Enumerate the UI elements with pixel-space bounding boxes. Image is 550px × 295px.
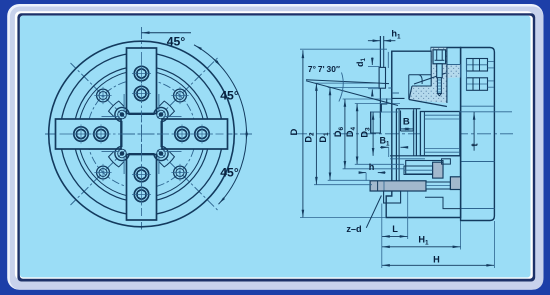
- hex socket: [435, 50, 445, 60]
- jaw block left: [371, 112, 381, 133]
- dimension D4 line: [356, 104, 358, 165]
- jaw screw 6: [132, 165, 151, 184]
- mounting bolt hole 1: [467, 59, 495, 72]
- angle upper line: [306, 80, 389, 84]
- D6 extension lines: [343, 99, 404, 169]
- angle arc: [339, 73, 343, 102]
- dimension h lines: [359, 171, 386, 181]
- stipple patch outline: [447, 65, 461, 78]
- pinion channels: [108, 101, 174, 167]
- bolt hole block: [384, 191, 401, 203]
- dimension t line: [473, 112, 476, 151]
- jaw screw 5: [132, 84, 151, 103]
- mounting bolt bar: [370, 181, 426, 191]
- mounting bolt hole 2: [467, 78, 495, 91]
- mounting bolt shaft: [426, 182, 450, 189]
- svg-text:H: H: [433, 255, 440, 265]
- z-d leader line: [366, 196, 381, 228]
- dimension h1 lines: [368, 39, 396, 42]
- dimension H1 line: [382, 221, 461, 250]
- jaw screw 7: [92, 125, 111, 144]
- dimension D2 line: [315, 83, 317, 185]
- jaw right: [162, 119, 228, 149]
- diagonal centerline top-right: [158, 58, 218, 118]
- chuck body circle: [60, 53, 223, 216]
- svg-text:z–d: z–d: [346, 224, 361, 234]
- jaw slot clearance lines: [102, 94, 182, 174]
- body inner step line: [387, 52, 389, 68]
- diagonal centerline bottom-right: [158, 150, 218, 210]
- jaw left: [56, 119, 122, 149]
- back plate body: [461, 48, 495, 221]
- svg-text:t: t: [470, 143, 480, 146]
- pinion dot 3: [118, 149, 127, 158]
- lower mechanism block: [404, 159, 450, 178]
- boss outline: [412, 48, 447, 104]
- diagonal centerline top-left: [71, 63, 126, 118]
- svg-text:h: h: [369, 162, 375, 172]
- centerline through jaws: [60, 52, 224, 216]
- jaw screw 4: [193, 125, 212, 144]
- svg-text:45°: 45°: [167, 35, 186, 49]
- dimension D1 line: [329, 88, 331, 181]
- dimension D line: [302, 50, 304, 217]
- jaw slot walls: [390, 109, 461, 181]
- cover screw 2: [171, 87, 188, 104]
- centre opening with corner scoops: [115, 107, 168, 160]
- cover screw 4: [171, 164, 188, 181]
- back plate inner lines: [461, 106, 495, 208]
- cover screw 1: [94, 87, 111, 104]
- svg-text:B: B: [403, 116, 410, 127]
- wedge stipple area: [410, 48, 461, 103]
- front view horizontal centerline: [45, 133, 254, 135]
- top dimension line 45deg: [142, 32, 192, 34]
- jaw bottom: [127, 155, 157, 221]
- dimension B1 arrows: [380, 146, 408, 157]
- dimension d1 arrows: [368, 58, 380, 97]
- D extension bottom: [300, 217, 386, 219]
- svg-text:45°: 45°: [220, 88, 239, 102]
- jaw screw 3: [72, 125, 91, 144]
- recess circle inner: [78, 71, 205, 198]
- front view vertical centerline: [141, 27, 143, 230]
- body chamfer lines: [409, 75, 431, 100]
- bolt circle centerline: [87, 80, 196, 189]
- screw tip: [437, 94, 441, 96]
- dimension D3 line: [372, 112, 374, 156]
- dimension H line: [382, 204, 495, 269]
- jaw front face line: [379, 36, 381, 118]
- D extension top: [300, 48, 387, 50]
- jaw front inner line: [383, 36, 385, 67]
- back plate comb divider: [466, 59, 468, 91]
- jaw screw 1: [132, 64, 151, 83]
- D4 extension lines: [355, 104, 404, 165]
- upper guide steps: [388, 88, 399, 93]
- diagonal centerline bottom-left: [71, 150, 126, 205]
- angle lower line: [306, 81, 398, 106]
- dimension B line: [401, 128, 414, 131]
- pinion dot 2: [157, 110, 166, 119]
- pinion dot 4: [157, 149, 166, 158]
- D2 extension lines: [314, 83, 380, 185]
- chuck outer circle: [49, 41, 235, 227]
- dimension t reference line: [459, 111, 512, 113]
- jaw screw 2: [132, 185, 151, 204]
- jaw step outline: [371, 98, 405, 133]
- D3 extension line: [371, 111, 398, 113]
- jaw top: [127, 48, 157, 114]
- wedge slant top: [414, 73, 446, 84]
- svg-text:D: D: [289, 128, 300, 135]
- cap screw head: [433, 50, 446, 64]
- lower body steps: [425, 197, 461, 208]
- body top face line: [391, 51, 393, 98]
- dimension arc: [194, 45, 247, 204]
- section centerline: [293, 133, 513, 135]
- svg-text:45°: 45°: [220, 166, 239, 180]
- mounting bolt head: [450, 177, 460, 190]
- dimension D6 line: [344, 99, 346, 169]
- dimension L line: [382, 192, 408, 240]
- bore plug: [420, 112, 460, 156]
- wedge left edge: [409, 86, 412, 100]
- recess circle outer: [74, 66, 210, 202]
- chuck body outline: [386, 48, 460, 218]
- svg-text:L: L: [392, 224, 398, 234]
- D1 extension lines: [328, 88, 379, 181]
- jaw screw 8: [173, 125, 192, 144]
- screw shaft: [437, 64, 443, 78]
- screw thread: [437, 78, 441, 94]
- pinion dot 1: [118, 110, 127, 119]
- svg-text:7° 7' 30″: 7° 7' 30″: [308, 64, 340, 74]
- wedge slant bottom: [409, 100, 447, 107]
- arc arrowheads: [195, 46, 248, 204]
- stroke pin: [379, 67, 385, 88]
- cover screw 3: [94, 164, 111, 181]
